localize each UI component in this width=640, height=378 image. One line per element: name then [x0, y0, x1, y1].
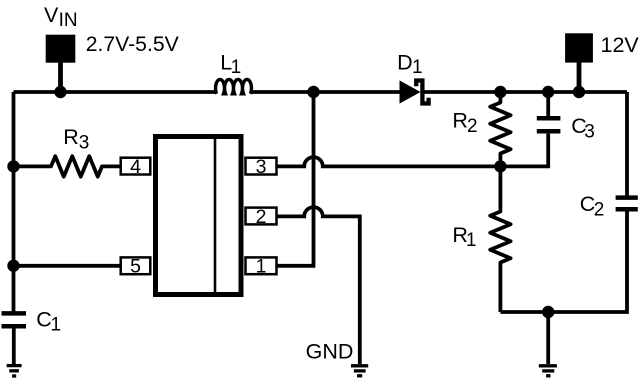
- svg-text:3: 3: [256, 156, 267, 178]
- svg-text:D: D: [397, 51, 413, 75]
- svg-text:3: 3: [79, 132, 90, 153]
- svg-text:GND: GND: [306, 340, 354, 364]
- svg-text:2: 2: [256, 206, 267, 228]
- svg-text:V: V: [44, 3, 59, 27]
- svg-text:R: R: [452, 109, 468, 133]
- svg-text:IN: IN: [59, 10, 78, 31]
- svg-text:12V: 12V: [601, 33, 640, 57]
- svg-text:1: 1: [51, 315, 62, 336]
- svg-text:R: R: [63, 125, 79, 149]
- svg-text:2.7V-5.5V: 2.7V-5.5V: [86, 33, 180, 56]
- svg-text:3: 3: [584, 122, 595, 143]
- svg-text:2: 2: [594, 199, 605, 220]
- svg-text:1: 1: [231, 57, 242, 78]
- svg-text:4: 4: [130, 156, 141, 178]
- svg-text:C: C: [36, 307, 52, 331]
- svg-text:1: 1: [256, 256, 267, 278]
- svg-text:1: 1: [466, 230, 477, 251]
- svg-text:2: 2: [467, 116, 478, 137]
- svg-text:5: 5: [130, 256, 141, 278]
- svg-text:1: 1: [412, 57, 423, 78]
